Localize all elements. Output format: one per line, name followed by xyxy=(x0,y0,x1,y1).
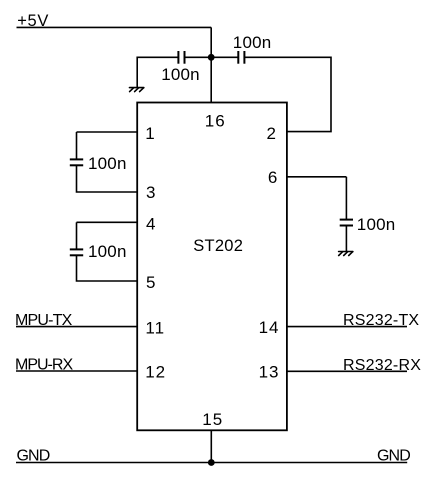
capacitor C4 plates xyxy=(70,249,83,255)
wire node to pin16 xyxy=(210,57,212,102)
svg-text:3: 3 xyxy=(146,183,155,202)
wire C2 to pin2 xyxy=(244,57,331,131)
node junction VCC xyxy=(208,54,215,61)
svg-text:16: 16 xyxy=(205,111,226,130)
svg-text:5: 5 xyxy=(146,273,155,292)
wire pin4 to C4 xyxy=(76,222,78,249)
svg-text:100n: 100n xyxy=(357,215,396,234)
op-amp U1 IC body ST202 xyxy=(137,103,287,431)
wire MPU-TX to pin11 xyxy=(16,326,137,328)
svg-text:6: 6 xyxy=(268,168,277,187)
wire C1 to ground xyxy=(137,57,178,87)
wire +5V horizontal xyxy=(17,26,212,28)
wire node to C1 xyxy=(185,56,212,58)
node junction GND xyxy=(208,459,215,466)
wire +5V drop to node xyxy=(210,27,212,57)
svg-text:12: 12 xyxy=(145,362,166,381)
svg-text:GND: GND xyxy=(377,447,410,464)
wire node to C2 xyxy=(211,56,238,58)
svg-text:13: 13 xyxy=(259,362,280,381)
wire pin1 stub xyxy=(77,131,138,133)
svg-text:100n: 100n xyxy=(88,242,127,261)
wire pin1 to C3 xyxy=(76,132,78,159)
svg-text:GND: GND xyxy=(17,447,50,464)
svg-text:14: 14 xyxy=(259,318,280,337)
capacitor C3 plates xyxy=(70,159,83,165)
svg-text:100n: 100n xyxy=(161,65,200,84)
ground G1 xyxy=(130,88,144,92)
wire GND bus xyxy=(16,462,407,464)
wire MPU-RX to pin12 xyxy=(16,370,137,372)
wire C5 to ground xyxy=(345,226,347,252)
capacitor C2 plates xyxy=(238,51,244,64)
svg-text:ST202: ST202 xyxy=(193,237,243,255)
wire RS232-RX to pin13 xyxy=(287,370,407,372)
wire pin15 to GND bus xyxy=(210,430,212,462)
wire pin4 stub xyxy=(77,221,138,223)
svg-text:1: 1 xyxy=(145,124,154,143)
wire C3 to pin3 xyxy=(77,165,138,192)
wire pin6 to C5 xyxy=(345,177,347,220)
capacitor C1 plates xyxy=(178,51,184,64)
svg-text:100n: 100n xyxy=(233,33,272,52)
wire pin6 stub xyxy=(287,176,347,178)
capacitor C5 plates xyxy=(340,220,353,226)
ground G2 xyxy=(339,252,353,256)
svg-text:4: 4 xyxy=(146,215,155,234)
svg-text:2: 2 xyxy=(267,124,276,143)
svg-text:100n: 100n xyxy=(88,154,127,173)
svg-text:11: 11 xyxy=(145,318,165,337)
wire RS232-TX to pin14 xyxy=(287,326,407,328)
svg-text:15: 15 xyxy=(202,410,223,429)
wire C4 to pin5 xyxy=(77,255,138,281)
